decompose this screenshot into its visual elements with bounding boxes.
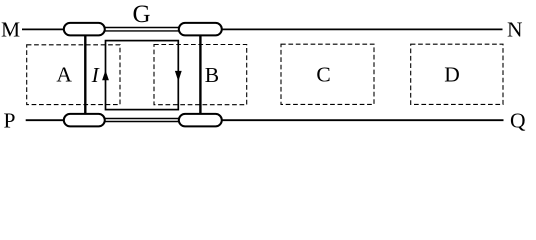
svg-text:P: P <box>4 109 16 133</box>
svg-text:G: G <box>132 1 150 28</box>
svg-text:D: D <box>444 62 460 86</box>
svg-text:C: C <box>316 62 330 86</box>
svg-text:M: M <box>1 18 20 42</box>
svg-text:N: N <box>507 18 523 42</box>
svg-text:Q: Q <box>510 109 526 133</box>
svg-text:I: I <box>91 63 100 87</box>
svg-text:A: A <box>56 63 72 87</box>
svg-text:B: B <box>205 63 219 87</box>
